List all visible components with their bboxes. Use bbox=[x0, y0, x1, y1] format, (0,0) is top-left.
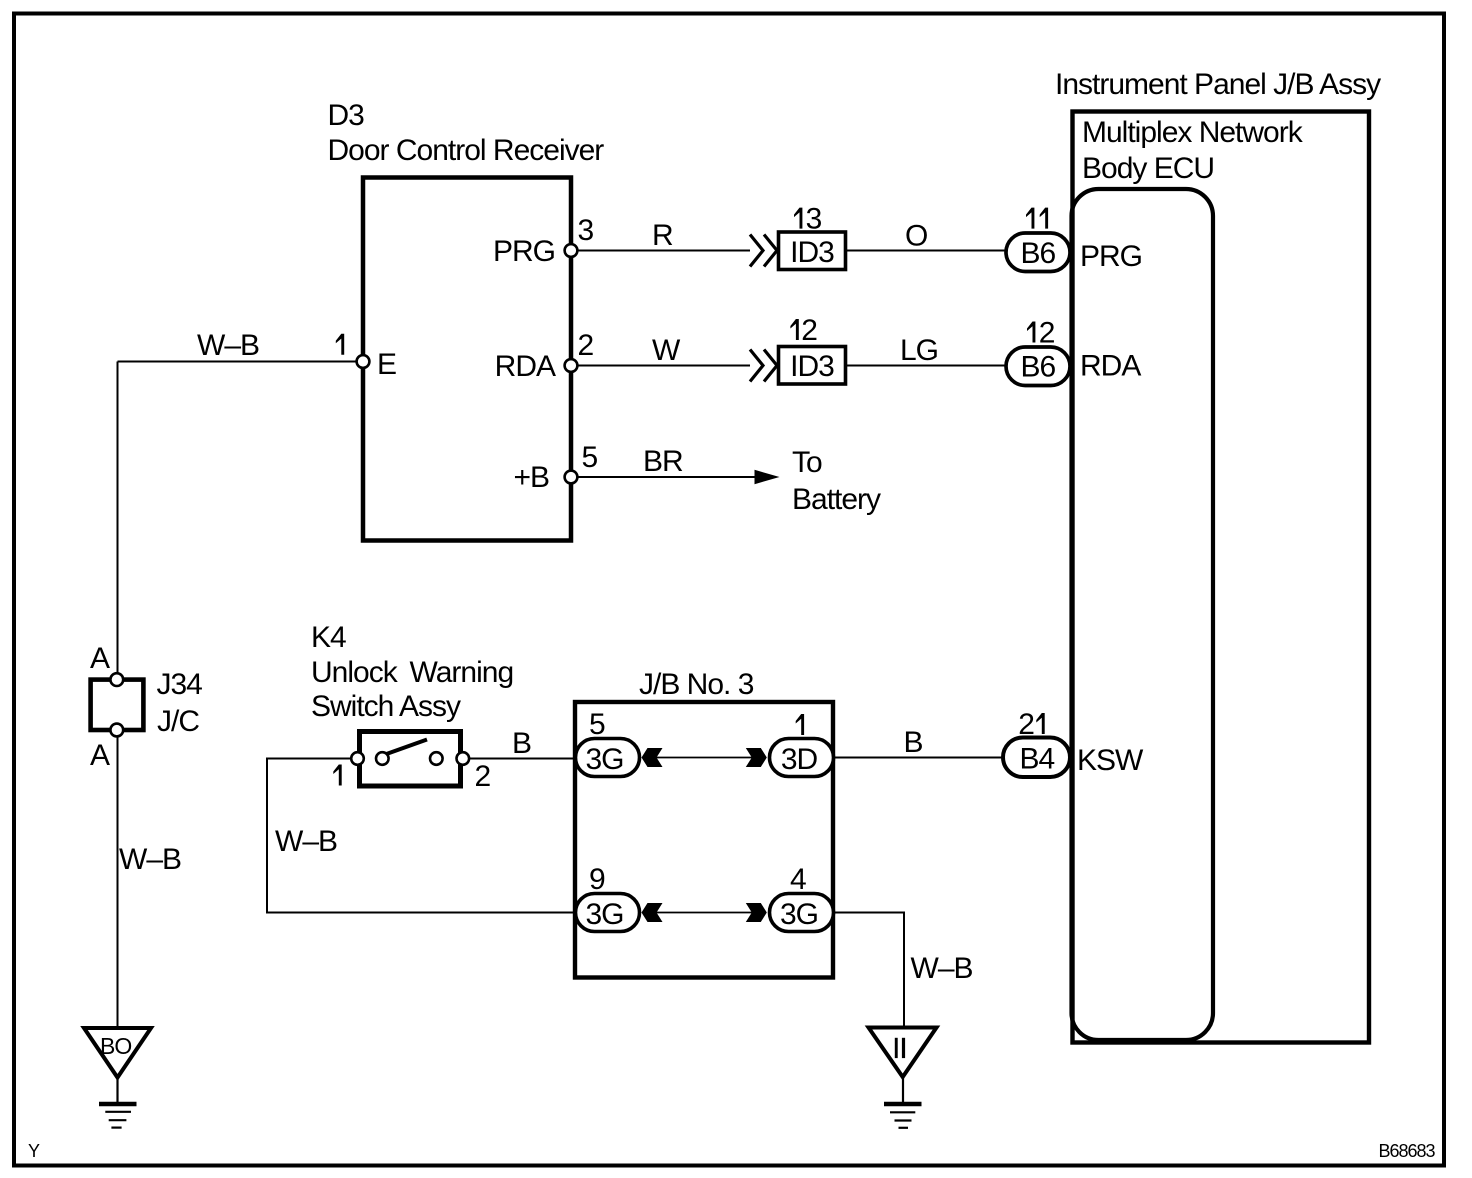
svg-text:B4: B4 bbox=[1019, 743, 1054, 776]
svg-text:A: A bbox=[90, 739, 110, 772]
wire left vertical W-B down to ground bbox=[117, 362, 119, 1029]
pin number 1 bbox=[336, 334, 344, 355]
connector ID3 box (row 2) bbox=[779, 347, 846, 385]
svg-text:9: 9 bbox=[589, 863, 605, 896]
ground II hatch bbox=[884, 1102, 922, 1107]
connector B6 oval (row 1) bbox=[1006, 233, 1070, 272]
svg-text:W–B: W–B bbox=[275, 825, 337, 858]
wire W from pin 2 to junction arrows bbox=[571, 365, 750, 367]
junction J34 J/C box bbox=[91, 680, 144, 730]
wire from switch pin 1 left and down bbox=[267, 759, 577, 913]
svg-text:J/B No. 3: J/B No. 3 bbox=[639, 668, 754, 701]
svg-text:B6: B6 bbox=[1020, 351, 1055, 384]
svg-text:5: 5 bbox=[589, 708, 605, 741]
wire between 3G and 3G (row 2) bbox=[648, 912, 760, 914]
wire O from ID3 to B6 bbox=[846, 250, 1007, 252]
svg-text:2: 2 bbox=[475, 760, 491, 793]
ground BO triangle bbox=[84, 1028, 151, 1078]
svg-text:2: 2 bbox=[578, 329, 594, 362]
switch terminal 2 circle bbox=[457, 752, 470, 765]
pin 2 RDA circle bbox=[565, 359, 578, 372]
svg-text:J34: J34 bbox=[157, 668, 203, 701]
svg-text:Battery: Battery bbox=[792, 483, 881, 516]
svg-text:2: 2 bbox=[801, 314, 817, 347]
svg-text:LG: LG bbox=[900, 334, 938, 367]
connector ID3 box (row 1) bbox=[779, 232, 846, 270]
svg-text:3: 3 bbox=[578, 214, 594, 247]
svg-text:Switch Assy: Switch Assy bbox=[311, 690, 461, 723]
component D3 Door Control Receiver box bbox=[363, 178, 571, 541]
connector number 12 bbox=[1027, 322, 1035, 343]
svg-text:D3: D3 bbox=[328, 99, 365, 132]
connector 3D oval (pin 1) bbox=[770, 739, 834, 777]
arrow left (row 1) bbox=[642, 748, 663, 767]
junction circle A top bbox=[110, 673, 123, 686]
switch K4 box bbox=[360, 732, 461, 787]
wire LG from ID3 to B6 bbox=[846, 365, 1007, 367]
connector number 13 bbox=[794, 208, 802, 229]
svg-text:Door Control Receiver: Door Control Receiver bbox=[328, 134, 605, 167]
wire between 3G and 3D (row 1) bbox=[648, 757, 760, 759]
svg-text:B: B bbox=[512, 727, 531, 760]
svg-text:2: 2 bbox=[1018, 708, 1034, 741]
connector 3G oval (pin 9) bbox=[576, 894, 640, 932]
switch inner circle right bbox=[430, 752, 443, 765]
svg-text:+B: +B bbox=[513, 461, 549, 494]
connector B6 oval (row 2) bbox=[1006, 347, 1070, 386]
svg-text:2: 2 bbox=[1039, 317, 1055, 350]
svg-text:PRG: PRG bbox=[1080, 240, 1142, 273]
svg-text:Instrument Panel J/B Assy: Instrument Panel J/B Assy bbox=[1055, 68, 1381, 101]
ground BO hatch bbox=[99, 1102, 137, 1107]
junction chevrons row 2 bbox=[750, 350, 777, 382]
svg-text:Body ECU: Body ECU bbox=[1082, 152, 1214, 185]
wire R from pin 3 to junction arrows bbox=[571, 250, 750, 252]
svg-text:B: B bbox=[904, 726, 923, 759]
svg-text:B68683: B68683 bbox=[1379, 1141, 1436, 1161]
svg-text:W–B: W–B bbox=[197, 329, 259, 362]
svg-text:BO: BO bbox=[100, 1033, 131, 1059]
svg-text:RDA: RDA bbox=[1080, 350, 1141, 383]
svg-text:A: A bbox=[90, 642, 110, 675]
svg-text:BR: BR bbox=[643, 445, 683, 478]
arrow left (row 2) bbox=[642, 903, 663, 922]
svg-text:Unlock Warning: Unlock Warning bbox=[311, 656, 513, 689]
pin 1 E circle bbox=[357, 355, 370, 368]
wire BR from pin 5 to battery bbox=[571, 476, 775, 478]
svg-text:To: To bbox=[792, 446, 822, 479]
connector B4 oval (pin 21) bbox=[1003, 738, 1070, 778]
wire from 3G pin 4 to ground bbox=[835, 913, 904, 1028]
svg-text:W–B: W–B bbox=[911, 952, 973, 985]
svg-text:4: 4 bbox=[790, 863, 806, 896]
connector number 1 bbox=[796, 714, 804, 735]
svg-text:R: R bbox=[652, 219, 673, 252]
arrowhead to battery bbox=[755, 470, 780, 484]
svg-text:KSW: KSW bbox=[1077, 744, 1144, 777]
svg-text:3G: 3G bbox=[585, 743, 623, 776]
connector number 12 bbox=[790, 319, 798, 340]
ground BO stem bbox=[116, 1078, 118, 1104]
svg-text:E: E bbox=[377, 348, 396, 381]
arrow right (row 1) bbox=[746, 748, 767, 767]
svg-text:J/C: J/C bbox=[157, 705, 199, 738]
svg-text:3D: 3D bbox=[781, 743, 818, 776]
connector number 11 bbox=[1026, 208, 1034, 229]
Multiplex Network Body ECU rounded box bbox=[1072, 189, 1214, 1040]
connector 3G oval (pin 5) bbox=[576, 739, 640, 777]
svg-text:O: O bbox=[905, 220, 927, 253]
ground II triangle bbox=[869, 1028, 937, 1078]
connector 3G oval (pin 4) bbox=[770, 894, 834, 932]
wire W-B from pin 1 (E) to left bbox=[118, 361, 364, 363]
svg-text:ID3: ID3 bbox=[790, 350, 834, 383]
svg-text:W–B: W–B bbox=[119, 843, 181, 876]
arrow right (row 2) bbox=[746, 903, 767, 922]
switch inner circle left bbox=[376, 752, 389, 765]
svg-text:RDA: RDA bbox=[495, 350, 556, 383]
J/B No.3 box bbox=[575, 702, 833, 978]
svg-text:3: 3 bbox=[806, 203, 822, 236]
pin 3 PRG circle bbox=[565, 244, 578, 257]
wire from switch pin 2 to J/B No.3 3G bbox=[463, 758, 577, 760]
switch terminal 1 circle bbox=[351, 752, 364, 765]
ground II stem bbox=[902, 1077, 904, 1103]
svg-text:Y: Y bbox=[28, 1141, 40, 1161]
junction chevrons row 1 bbox=[750, 235, 777, 267]
svg-text:W: W bbox=[652, 334, 681, 367]
svg-text:Multiplex Network: Multiplex Network bbox=[1082, 116, 1304, 149]
svg-text:K4: K4 bbox=[311, 621, 346, 654]
svg-text:5: 5 bbox=[582, 441, 598, 474]
svg-text:B6: B6 bbox=[1020, 237, 1055, 270]
svg-text:3G: 3G bbox=[780, 898, 818, 931]
ground II label bbox=[895, 1038, 898, 1058]
svg-text:ID3: ID3 bbox=[790, 236, 834, 269]
wire B from 3D to B4 bbox=[835, 757, 1006, 759]
junction circle A bottom bbox=[110, 724, 123, 737]
switch lever bbox=[385, 740, 427, 755]
Instrument Panel J/B Assy box bbox=[1073, 112, 1370, 1043]
svg-text:3G: 3G bbox=[585, 898, 623, 931]
pin 5 +B circle bbox=[565, 471, 578, 484]
svg-text:PRG: PRG bbox=[493, 235, 555, 268]
terminal number 1 bbox=[333, 765, 341, 786]
